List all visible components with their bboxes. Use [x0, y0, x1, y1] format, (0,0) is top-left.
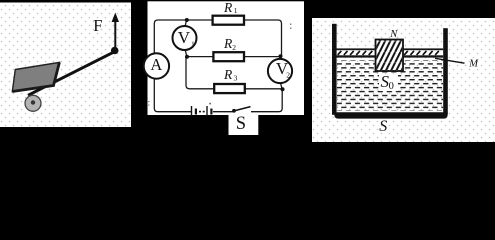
surface band left segment [337, 48, 376, 57]
middle panel background [148, 0, 305, 115]
wheel (pivot) [25, 95, 41, 111]
battery dashes between cells [199, 111, 201, 113]
voltmeter V2 [268, 59, 292, 83]
container right wall [443, 28, 448, 115]
surface band right segment [403, 48, 443, 57]
switch label box [229, 115, 259, 135]
battery cell 2 short plate [210, 109, 212, 115]
resistor R2 [213, 52, 244, 61]
svg-text:A: A [150, 55, 162, 74]
scan noise right edge [290, 24, 291, 25]
force application dot [111, 47, 119, 55]
top black strip left panel [0, 0, 131, 3]
switch pivot [232, 109, 236, 113]
svg-text:S: S [379, 118, 387, 135]
battery cell 2 long plate [206, 106, 207, 117]
rod (lever) [28, 52, 114, 95]
switch lever [236, 107, 251, 111]
svg-text:1: 1 [191, 39, 195, 48]
wire: R3 branch with left corner from V1 branch [186, 57, 283, 89]
force arrow F [114, 19, 116, 50]
liquid dashes [337, 60, 443, 111]
left panel background [0, 3, 131, 128]
svg-text:R: R [223, 0, 233, 15]
svg-text:M: M [468, 59, 479, 70]
container left wall [332, 24, 337, 115]
battery cell 1 long plate [191, 106, 192, 117]
pointer line to M [435, 58, 465, 63]
resistor R3 [214, 84, 245, 93]
svg-text:2: 2 [232, 43, 236, 52]
svg-text:V: V [178, 28, 191, 47]
svg-text:3: 3 [234, 73, 238, 82]
battery cell 1 short plate [195, 109, 197, 115]
svg-text:2: 2 [286, 70, 290, 79]
label S0 knockout [379, 74, 398, 91]
wire: V1 branch stub [185, 20, 187, 27]
svg-text:S: S [236, 114, 246, 134]
svg-text:R: R [223, 67, 233, 82]
wire: outer loop [154, 20, 282, 112]
svg-text:F: F [93, 16, 102, 35]
junction dot below V2 at R3 [281, 87, 285, 91]
wire: R2 branch [187, 56, 282, 58]
junction dot below V1 [185, 55, 189, 59]
container bottom [334, 112, 447, 118]
ammeter A [144, 53, 169, 78]
resistor R1 [213, 16, 244, 25]
svg-text:0: 0 [389, 81, 394, 92]
scan noise left edge [148, 101, 149, 102]
voltmeter V1 [173, 26, 197, 50]
axle dot [31, 100, 35, 104]
load box (gray parallelogram) [12, 62, 59, 91]
svg-text:1: 1 [234, 6, 238, 15]
junction dot top wire [185, 18, 189, 22]
junction dot right wire at R2 [279, 54, 283, 58]
right panel background [312, 18, 495, 142]
block N [376, 40, 404, 72]
load box thick bottom edge [12, 62, 59, 91]
top black strip middle panel [148, 0, 305, 1]
svg-text:N: N [389, 29, 398, 40]
